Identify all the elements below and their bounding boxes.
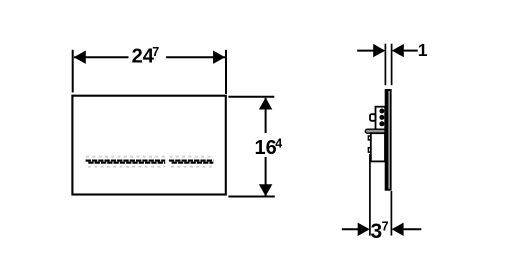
dimension 1: right extension line <box>391 44 393 85</box>
dimension 3^7: right arrowhead (pointing left) <box>392 223 404 236</box>
dimension 1: left extension line <box>384 44 386 85</box>
dimension 16^4: lower dimension line segment <box>265 157 267 196</box>
dimension 24^7: left arrowhead <box>74 51 86 64</box>
svg-text:7: 7 <box>152 45 159 59</box>
dimension 3^7: right extension line <box>390 191 392 236</box>
svg-text:1: 1 <box>418 40 428 60</box>
side view: plate body <box>385 89 392 191</box>
dimension 16^4: bottom extension line <box>228 196 274 198</box>
side view: lower mounting tab 1 <box>368 136 370 140</box>
dimension 16^4: upper dimension line segment <box>265 98 267 133</box>
front view: decorative strip right segment <box>169 157 213 167</box>
side view: push rod dot 2 <box>379 115 384 120</box>
side view: upper mounting tab <box>370 114 376 121</box>
dimension 24^7: right arrowhead <box>213 51 225 64</box>
svg-text:3: 3 <box>370 220 382 243</box>
dimension 3^7: left leader line <box>342 228 358 230</box>
dimension 1: right arrowhead (pointing left) <box>392 44 404 57</box>
side view: push rod dot 1 <box>379 109 384 114</box>
side view: lower housing box <box>371 133 385 161</box>
side view: push rod dot 3 <box>379 121 384 126</box>
dimension 24^7: right extension tick <box>225 50 227 94</box>
front view: plate outline <box>72 96 225 195</box>
dimension 3^7: left extension line <box>369 154 371 236</box>
side view: actuator rod <box>365 129 385 133</box>
side view: plate inner highlight line <box>388 91 390 189</box>
front view: decorative strip left segment <box>86 157 166 167</box>
dimension 1: left arrowhead (pointing right) <box>373 44 385 57</box>
dimension 1: right leader line <box>402 50 418 52</box>
dimension 24^7: left dimension line segment <box>74 56 129 58</box>
side view: lower mounting tab 2 <box>368 148 370 152</box>
dimension 3^7: right leader line <box>404 228 422 230</box>
dimension 16^4: top arrowhead <box>259 98 272 110</box>
side view: upper housing box <box>376 107 386 130</box>
dimension 16^4: top extension line <box>228 96 274 98</box>
svg-text:16: 16 <box>254 137 276 159</box>
dimension 1: left leader line <box>357 50 375 52</box>
svg-text:4: 4 <box>275 137 282 151</box>
dimension 16^4: bottom arrowhead <box>259 184 272 196</box>
dimension 24^7: left extension tick <box>72 50 74 93</box>
dimension 3^7: left arrowhead (pointing right) <box>358 223 370 236</box>
svg-text:7: 7 <box>382 219 389 233</box>
dimension 24^7: right dimension line segment <box>166 56 225 58</box>
